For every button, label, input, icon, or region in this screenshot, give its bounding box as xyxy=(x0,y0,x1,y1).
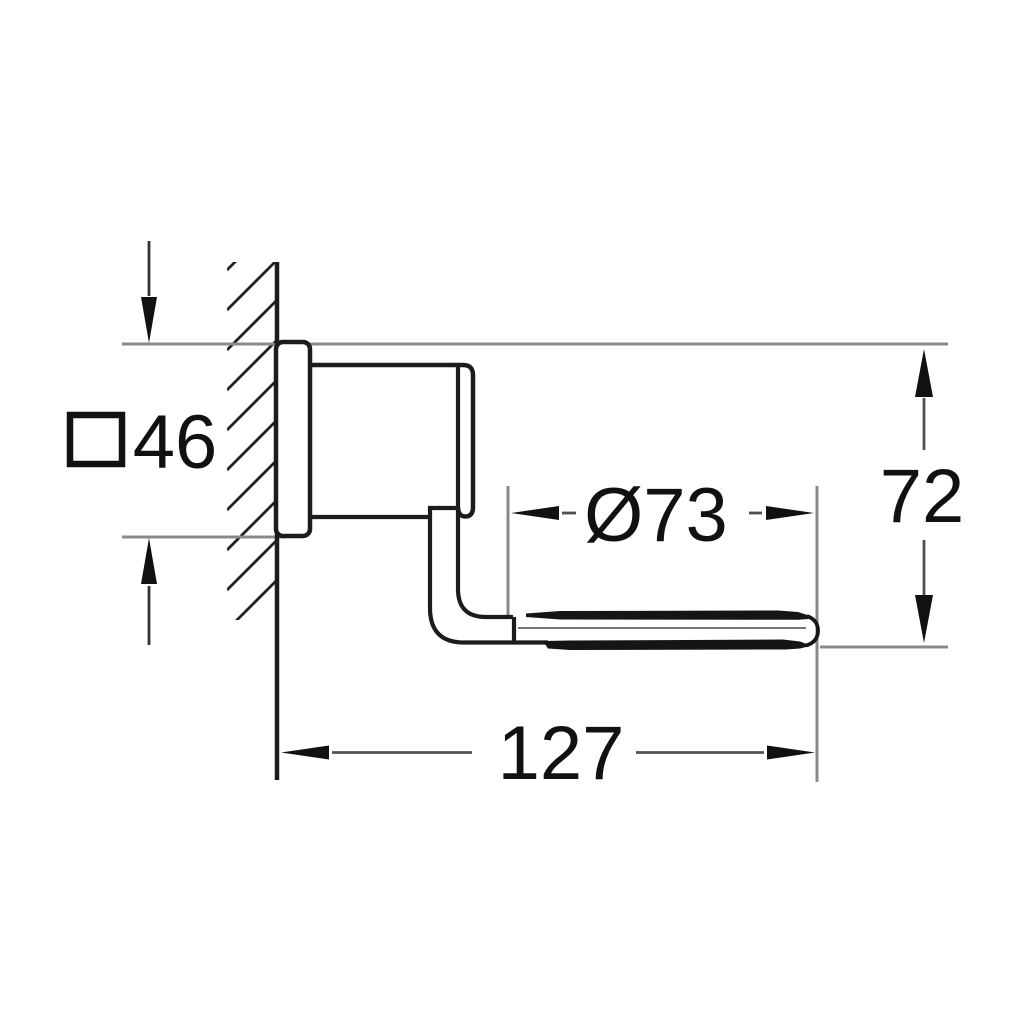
svg-text:72: 72 xyxy=(880,454,965,539)
svg-text:46: 46 xyxy=(133,400,218,485)
svg-text:127: 127 xyxy=(498,711,625,796)
svg-text:Ø73: Ø73 xyxy=(584,473,728,558)
